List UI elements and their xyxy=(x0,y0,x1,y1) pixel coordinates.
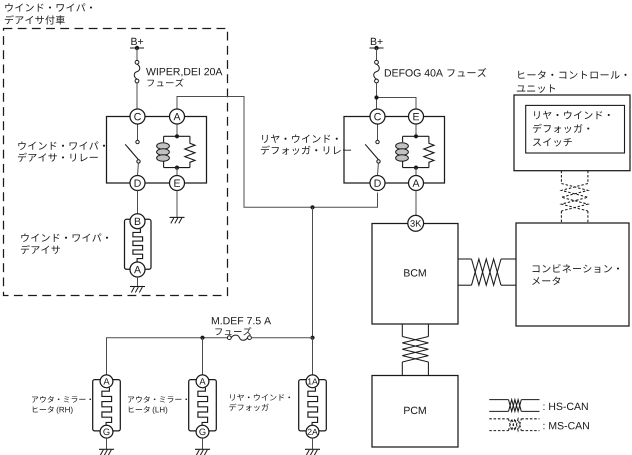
label: mirror heater LH l2 xyxy=(129,406,150,413)
label: heater control unit l2 xyxy=(517,84,555,92)
wire: B+ to fuse xyxy=(376,48,378,60)
wiper deicer element box xyxy=(125,219,152,269)
label: mirror heater RH l2 xyxy=(33,406,54,413)
wire: B+ to fuse xyxy=(136,48,138,60)
B+ power feed (wiper deicer) xyxy=(131,38,143,45)
node: LH heater branch xyxy=(200,336,204,340)
terminal A (outer mirror heater LH) xyxy=(196,375,209,388)
rear window defogger switch box xyxy=(526,105,625,153)
node: coil top junction xyxy=(414,134,418,138)
label: fuse katakana xyxy=(215,327,251,335)
outer mirror heater RH box xyxy=(93,380,121,431)
label: MS-CAN xyxy=(543,422,588,429)
label: defogger relay l1 xyxy=(262,134,338,142)
relay coil (with parallel resistor) xyxy=(396,124,429,168)
wire: outer mirror heater RH to ground xyxy=(106,438,108,449)
terminal G (outer mirror heater LH) xyxy=(196,425,209,438)
label: defogger switch l3 xyxy=(533,138,572,147)
node: fuse branch junction xyxy=(374,95,378,99)
wire: M.DEF row left section xyxy=(107,338,228,375)
label: combination meter l1 xyxy=(533,264,619,273)
terminal C (defogger relay) xyxy=(370,109,385,124)
ground xyxy=(170,217,185,223)
wire: fuse to C and branch to E xyxy=(376,83,378,109)
label: wiper deicer relay l2 xyxy=(18,153,98,162)
label: mirror heater LH l1 xyxy=(128,396,187,403)
terminal E (wiper relay) xyxy=(170,176,185,191)
wire: fuse to relay terminal C xyxy=(136,83,138,109)
fuse DEFOG 40A xyxy=(374,60,380,83)
node: coil bottom junction xyxy=(414,166,418,170)
label: PCM xyxy=(404,407,426,414)
PCM box xyxy=(372,376,458,448)
wire: LH heater branch down xyxy=(202,338,204,375)
label: (LH) xyxy=(153,407,168,414)
label: defogger switch l2 xyxy=(533,124,589,133)
terminal A (defogger relay) xyxy=(409,176,424,191)
node: junction at M.DEF row xyxy=(310,336,314,340)
label: fuse (katakana) xyxy=(147,78,183,86)
HS-CAN bus: BCM to combination meter xyxy=(458,259,516,285)
label: BCM xyxy=(404,269,426,276)
label: option line 2 xyxy=(5,15,65,24)
node: coil bottom junction xyxy=(175,166,179,170)
terminal A (outer mirror heater RH) xyxy=(100,375,113,388)
relay switch contact xyxy=(125,124,140,176)
outer mirror heater LH box xyxy=(189,380,217,431)
label: defogger relay l2 xyxy=(261,145,351,154)
label: (RH) xyxy=(57,407,73,414)
label: wiper deicer l1 xyxy=(21,233,108,242)
wire: outer mirror heater LH to ground xyxy=(202,438,204,449)
wire: deicer A to ground xyxy=(137,277,139,287)
ground xyxy=(99,449,114,455)
label: rear window defogger l1 xyxy=(230,394,290,401)
label: fuse katakana xyxy=(447,68,486,77)
wire: rear window defogger to ground xyxy=(312,438,314,449)
terminal A (deicer) xyxy=(130,262,145,277)
B+ power feed (defogger) xyxy=(371,38,383,45)
relay: rear window defogger relay box xyxy=(344,117,445,184)
label: HS-CAN xyxy=(543,403,587,410)
wire: wiper relay A to defogger feed net xyxy=(177,97,378,208)
ground xyxy=(195,449,210,455)
terminal 3K (BCM) xyxy=(408,215,424,231)
heater control unit box xyxy=(514,95,630,171)
label: mirror heater RH l1 xyxy=(32,396,91,403)
relay: wiper deicer relay box xyxy=(107,117,207,184)
label: combination meter l2 xyxy=(532,276,560,285)
label: heater control unit l1 xyxy=(518,70,626,79)
label: wiper deicer l2 xyxy=(21,245,60,254)
rear window defogger box xyxy=(299,380,327,431)
terminal B (deicer) xyxy=(130,214,145,229)
relay coil suppression resistor xyxy=(185,136,195,167)
terminal A (wiper relay) xyxy=(170,109,185,124)
terminal E (defogger relay) xyxy=(409,109,424,124)
outer mirror heater LH heater meander xyxy=(198,388,208,426)
wire: fuse to junction xyxy=(251,337,312,339)
relay coil suppression resistor xyxy=(424,136,434,167)
wire: defogger feed vertical xyxy=(312,207,314,337)
ground xyxy=(305,449,320,455)
label: M.DEF 7.5 A xyxy=(212,317,271,324)
terminal 2A (rear window defogger) xyxy=(306,425,319,438)
node: coil top junction xyxy=(175,134,179,138)
terminal 1A (rear window defogger) xyxy=(306,375,319,388)
label: rear window defogger l2 xyxy=(229,403,268,411)
terminal G (outer mirror heater RH) xyxy=(100,425,113,438)
wire: D to deicer element B xyxy=(137,191,139,214)
relay switch contact xyxy=(365,124,380,176)
outer mirror heater RH heater meander xyxy=(102,388,112,426)
label: WIPER,DEI 20A xyxy=(146,68,222,77)
terminal D (wiper relay) xyxy=(130,176,145,191)
fuse M.DEF 7.5 A xyxy=(227,335,251,340)
label: option - window wiper deicer equipped xyxy=(5,3,92,12)
fuse WIPER,DEI 20A xyxy=(134,60,140,83)
ground xyxy=(130,287,145,293)
wire: defogger relay A to BCM 3K xyxy=(415,191,417,216)
dashed option enclosure xyxy=(4,29,228,296)
wire: junction down to rear defogger xyxy=(312,338,314,375)
label: DEFOG 40A xyxy=(385,69,443,76)
legend: HS-CAN symbol xyxy=(489,400,539,412)
relay coil (with parallel resistor) xyxy=(157,124,190,168)
legend: MS-CAN symbol xyxy=(489,419,539,431)
terminal C (wiper relay) xyxy=(130,109,145,124)
label: defogger switch l1 xyxy=(534,111,610,119)
combination meter box xyxy=(516,223,629,326)
node: junction defogger feed xyxy=(310,205,314,209)
HS-CAN bus: BCM to PCM xyxy=(402,324,428,376)
rear window defogger heater meander xyxy=(308,388,318,426)
wiper deicer heater meander xyxy=(133,229,143,262)
BCM box xyxy=(372,224,458,325)
label: wiper deicer relay l1 xyxy=(18,141,105,150)
MS-CAN bus: heater control unit to combination meter xyxy=(561,171,588,223)
terminal D (defogger relay) xyxy=(370,176,385,191)
wire: E to ground xyxy=(176,191,178,218)
